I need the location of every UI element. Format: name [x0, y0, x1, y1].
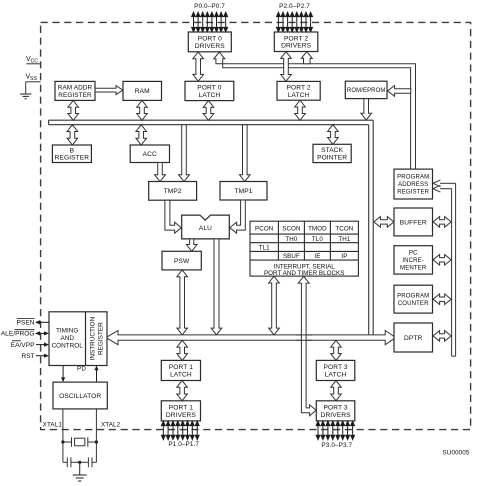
svg-text:PCON: PCON — [255, 226, 273, 233]
svg-text:ALU: ALU — [199, 225, 212, 232]
svg-text:COUNTER: COUNTER — [398, 300, 429, 307]
svg-text:PORT 0: PORT 0 — [197, 85, 221, 92]
svg-text:AND: AND — [60, 335, 74, 342]
SFR table cell labels — [255, 226, 353, 261]
svg-text:CONTROL: CONTROL — [52, 342, 84, 349]
arrow lower bus <-> port1 latch — [177, 340, 188, 360]
arrow pc incrementer <-> program bus — [433, 255, 451, 266]
svg-text:LATCH: LATCH — [325, 371, 347, 378]
ram block — [123, 81, 162, 100]
program bus vertical pair (right side) — [452, 183, 456, 356]
arrow buffer <-> program bus — [433, 217, 451, 228]
svg-text:TIMING: TIMING — [56, 327, 78, 334]
svg-text:RAM: RAM — [135, 88, 150, 95]
program counter block — [394, 285, 433, 313]
pc incrementer block — [394, 246, 433, 274]
tmp2 block — [149, 182, 197, 201]
svg-text:DRIVERS: DRIVERS — [195, 43, 226, 50]
svg-text:PROGRAM: PROGRAM — [397, 293, 429, 300]
svg-text:TL1: TL1 — [259, 245, 270, 252]
svg-text:TMP2: TMP2 — [164, 188, 182, 195]
svg-text:PORT 2: PORT 2 — [284, 35, 308, 42]
svg-text:TMP1: TMP1 — [235, 188, 253, 195]
svg-text:REGISTER: REGISTER — [97, 322, 104, 355]
svg-text:TH1: TH1 — [338, 236, 350, 243]
svg-text:PSW: PSW — [174, 258, 190, 265]
port 3 drivers block — [316, 401, 355, 421]
svg-text:PORT 2: PORT 2 — [287, 85, 311, 92]
ram address register block — [55, 81, 95, 100]
port 0 latch block — [185, 81, 234, 100]
arrow port1 latch <-> port1 drivers — [177, 381, 188, 401]
svg-text:P3.0–P3.7: P3.0–P3.7 — [321, 442, 352, 449]
svg-text:BUFFER: BUFFER — [400, 219, 427, 226]
svg-text:OSCILLATOR: OSCILLATOR — [59, 393, 101, 400]
svg-text:PROGRAM: PROGRAM — [397, 174, 429, 181]
svg-text:P2.0–P2.7: P2.0–P2.7 — [279, 3, 310, 10]
port 0 pin arrows P0.0-P0.7 — [192, 12, 228, 32]
arrow bus -> tmp1 — [240, 125, 251, 182]
arrow bus <-> stack pointer — [328, 125, 339, 145]
arrow lower bus <-> port3 latch — [331, 340, 342, 360]
pin PSEN (output arrow + overbar label) — [17, 319, 49, 327]
wire program bus -> program address register (lower) — [433, 185, 452, 192]
svg-text:RAM ADDR: RAM ADDR — [58, 85, 93, 92]
svg-text:ACC: ACC — [143, 151, 157, 158]
svg-text:DRIVERS: DRIVERS — [166, 412, 197, 419]
svg-text:LATCH: LATCH — [199, 92, 221, 99]
svg-text:SU00005: SU00005 — [443, 450, 470, 457]
alu block — [182, 215, 230, 239]
pin EA/VPP (input arrow + overbar label) — [11, 341, 49, 349]
crystal Y1 — [63, 437, 97, 446]
wire oscillator -> instruction register — [94, 366, 98, 383]
chip boundary (dashed border) — [41, 22, 471, 429]
svg-text:XTAL1: XTAL1 — [43, 422, 63, 429]
arrow bus -> tmp2 — [179, 125, 190, 182]
b register block — [52, 145, 91, 163]
arrow rom/eprom -> bus — [361, 99, 372, 120]
arrow psw <-> lower bus — [177, 270, 188, 335]
svg-text:PORT 1: PORT 1 — [169, 405, 193, 412]
svg-text:REGISTER: REGISTER — [397, 189, 429, 196]
port 2 drivers block — [274, 32, 318, 52]
branch arrow into ROM/EPROM — [388, 86, 411, 97]
interrupt/serial/timer SFR table — [250, 221, 358, 276]
port 0 drivers block — [188, 32, 231, 52]
arrow port2 latch <-> bus — [295, 100, 306, 120]
oscillator block — [53, 382, 107, 409]
arrow program counter <-> program bus — [433, 294, 451, 305]
svg-text:STACK: STACK — [321, 147, 343, 154]
arrow alu -> lower bus — [211, 239, 222, 335]
wire tmp1 -> alu (L path with arrow) — [230, 200, 246, 233]
wire table <-> port3 drivers (long path crossing lower bus) — [298, 276, 316, 416]
svg-text:INCRE-: INCRE- — [402, 257, 424, 264]
lower internal bus (instruction register to dptr) — [106, 331, 396, 345]
psw block — [162, 251, 201, 270]
vertical bus segment to buffer/dptr (right side of main bus) — [369, 120, 374, 335]
svg-text:TH0: TH0 — [285, 236, 297, 243]
power pin VCC — [26, 56, 41, 65]
arrow vertical bus <-> buffer — [374, 217, 394, 228]
svg-text:XTAL2: XTAL2 — [101, 422, 121, 429]
port 2 pin arrows P2.0-P2.7 — [277, 12, 313, 32]
junction node capacitors — [78, 461, 81, 464]
arrow alu -> psw — [186, 239, 197, 251]
timing and control + instruction register block — [49, 312, 107, 366]
svg-text:MENTER: MENTER — [400, 265, 427, 272]
table caption: interrupt serial port and timer blocks — [264, 264, 344, 278]
arrow port2 drivers <-> port2 latch — [281, 52, 292, 82]
svg-text:PORT 1: PORT 1 — [169, 364, 193, 371]
svg-text:TL0: TL0 — [312, 236, 323, 243]
arrow acc -> tmp2 — [155, 163, 166, 182]
svg-text:PSEN: PSEN — [17, 320, 35, 327]
wire tmp2 -> alu (L path with arrow) — [165, 200, 182, 233]
svg-text:SCON: SCON — [282, 226, 300, 233]
ground symbol (crystal) — [73, 462, 87, 481]
arrow ram <-> bus — [137, 100, 148, 120]
pin ALE/PROG (bidirectional arrow + overbar label) — [1, 330, 49, 338]
program address path: port0 drivers / across top / down to program address register — [214, 52, 416, 169]
arrow dptr <-> program bus — [433, 331, 451, 342]
svg-text:PC: PC — [409, 250, 418, 257]
arrow ram addr register -> ram — [95, 86, 123, 95]
acc block — [130, 145, 169, 163]
stack pointer block — [313, 144, 351, 162]
lower bus overdraw at crossing — [296, 335, 312, 340]
arrow ram addr register <-> bus — [68, 100, 79, 120]
svg-text:LATCH: LATCH — [170, 371, 192, 378]
arrow port0 drivers <-> port0 latch — [193, 52, 204, 81]
svg-text:P1.0–P1.7: P1.0–P1.7 — [168, 441, 199, 448]
svg-text:LATCH: LATCH — [288, 92, 310, 99]
ground symbol (VSS) — [20, 94, 31, 99]
junction node XTAL1 — [61, 440, 64, 443]
svg-text:TCON: TCON — [335, 226, 353, 233]
svg-text:DRIVERS: DRIVERS — [281, 43, 312, 50]
svg-text:B: B — [70, 147, 75, 154]
wire XTAL1 from oscillator — [62, 409, 64, 442]
wire XTAL2 from oscillator — [95, 409, 97, 442]
port 2 latch block — [277, 81, 320, 100]
branch arrow into port 2 drivers — [301, 52, 312, 64]
main internal bus (upper) — [49, 120, 374, 125]
svg-text:PORT 0: PORT 0 — [198, 36, 222, 43]
svg-text:PD: PD — [77, 365, 86, 372]
svg-text:POINTER: POINTER — [317, 154, 347, 161]
dptr block — [394, 323, 433, 352]
svg-text:INSTRUCTION: INSTRUCTION — [90, 316, 97, 360]
svg-text:ALE/PROG: ALE/PROG — [1, 331, 35, 338]
arrow port0 latch <-> bus — [203, 101, 214, 121]
svg-text:PORT 3: PORT 3 — [324, 405, 348, 412]
svg-text:IP: IP — [341, 253, 347, 260]
svg-text:TMOD: TMOD — [308, 226, 327, 233]
junction node XTAL2 — [95, 440, 98, 443]
port 3 pin arrows P3.0-P3.7 — [316, 421, 354, 439]
svg-text:RST: RST — [21, 353, 34, 360]
svg-text:EA/VPP: EA/VPP — [11, 342, 35, 349]
arrow table <-> lower bus (left) — [269, 276, 280, 335]
arrow port3 latch <-> port3 drivers — [331, 381, 342, 401]
svg-text:IE: IE — [314, 253, 320, 260]
svg-text:P0.0–P0.7: P0.0–P0.7 — [194, 3, 225, 10]
wire timing&control -> oscillator (PD) — [61, 366, 65, 383]
port 3 latch block — [316, 360, 355, 380]
port 1 drivers block — [161, 401, 200, 421]
capacitor C2 (XTAL2 side) — [80, 442, 97, 467]
capacitor C1 (XTAL1 side) — [63, 442, 80, 467]
svg-text:DRIVERS: DRIVERS — [321, 412, 352, 419]
program address register block — [394, 169, 433, 199]
port 1 latch block — [161, 360, 200, 380]
svg-text:DPTR: DPTR — [404, 335, 422, 342]
svg-text:ROM/EPROM: ROM/EPROM — [347, 88, 386, 94]
svg-text:REGISTER: REGISTER — [58, 92, 92, 99]
rom/eprom block — [345, 81, 387, 98]
svg-text:ADDRESS: ADDRESS — [398, 181, 428, 188]
tmp1 block — [220, 182, 267, 201]
svg-text:SS: SS — [30, 76, 37, 82]
arrow bus <-> acc — [136, 125, 147, 145]
svg-text:REGISTER: REGISTER — [55, 155, 90, 162]
svg-text:PORT 3: PORT 3 — [324, 364, 348, 371]
port 1 pin arrows P1.0-P1.7 — [161, 421, 199, 439]
pin RST (input arrow) — [21, 353, 49, 360]
power pin VSS — [26, 74, 41, 94]
svg-text:SBUF: SBUF — [283, 253, 300, 260]
arrow bus <-> b register — [67, 125, 78, 145]
buffer block — [394, 208, 433, 236]
wire program bus -> program address register (upper) — [433, 180, 456, 187]
